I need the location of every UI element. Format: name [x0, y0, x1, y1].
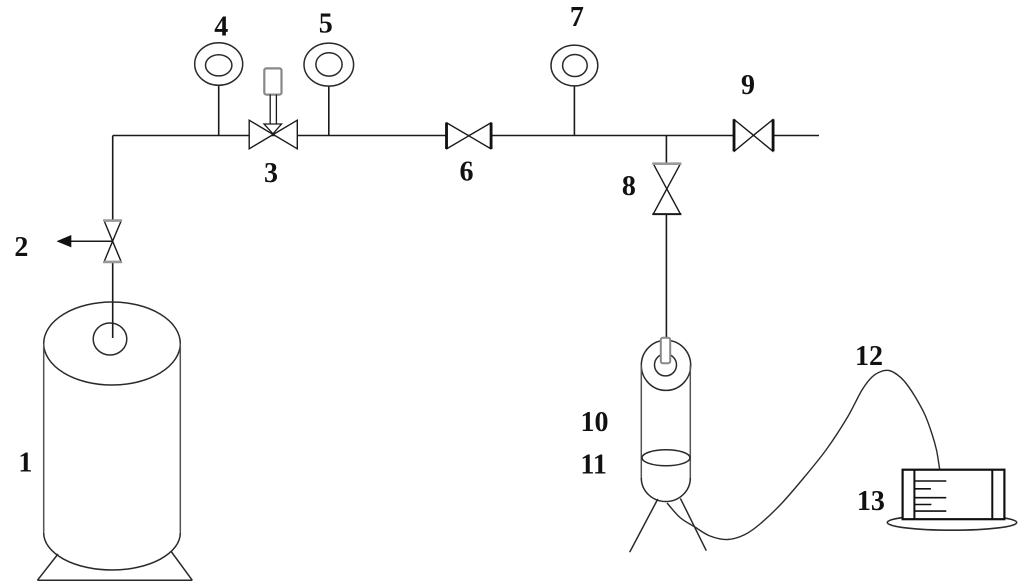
cylinder 1 (gas cylinder)	[37, 302, 192, 580]
cylinder port circle	[93, 323, 127, 355]
svg-text:11: 11	[580, 449, 606, 480]
wire: left riser lower segment to cylinder port	[112, 262, 114, 338]
vessel legs	[630, 498, 707, 552]
svg-text:12: 12	[855, 341, 883, 372]
valve 8 (vertical)	[652, 164, 681, 215]
gauge 4 (pressure gauge)	[195, 43, 243, 136]
regulator actuator	[264, 68, 281, 94]
gauge 5 (pressure gauge)	[304, 43, 354, 135]
svg-text:8: 8	[622, 171, 636, 202]
gauge 7 (pressure gauge)	[551, 45, 598, 135]
wire: main horizontal pipe	[113, 135, 819, 137]
wire: vent line with arrow	[69, 240, 113, 242]
valve 6	[447, 123, 492, 149]
cylinder base stand	[37, 551, 192, 580]
vessel bottom bowl	[641, 478, 690, 502]
svg-text:6: 6	[460, 157, 474, 188]
recorder 13	[887, 470, 1016, 531]
svg-text:7: 7	[570, 2, 584, 33]
valve 9	[734, 119, 773, 151]
svg-text:4: 4	[214, 12, 228, 43]
capillary tube 12 (curve to recorder)	[667, 370, 940, 539]
valve 3 (regulator valve)	[249, 68, 297, 148]
wire: left riser upper segment	[112, 136, 114, 221]
vessel 10 (sample cell)	[630, 338, 707, 553]
svg-text:1: 1	[18, 447, 32, 478]
svg-text:9: 9	[741, 70, 755, 101]
svg-text:10: 10	[581, 407, 609, 438]
valve 2 (vent valve, vertical)	[103, 221, 122, 263]
wire: branch from valve 8 down to vessel	[665, 214, 667, 340]
liquid level 11	[642, 450, 690, 466]
vent arrowhead	[57, 235, 72, 247]
svg-text:5: 5	[319, 8, 333, 39]
svg-text:2: 2	[14, 232, 28, 263]
wire: branch down from pipe to valve 8	[665, 136, 667, 164]
svg-text:13: 13	[857, 486, 885, 517]
svg-text:3: 3	[264, 158, 278, 189]
